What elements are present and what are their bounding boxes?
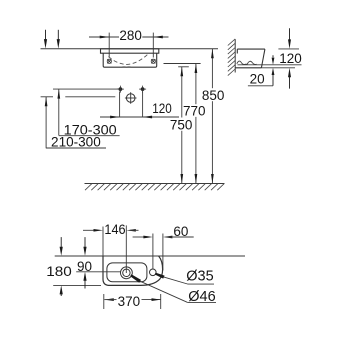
dimension 370 tick right	[160, 294, 162, 309]
dimension 180 label	[46, 264, 72, 279]
svg-text:60: 60	[173, 224, 188, 239]
basin front edge extension	[53, 284, 101, 286]
dimension 850 label	[202, 88, 225, 103]
svg-text:Ø35: Ø35	[186, 269, 213, 285]
svg-text:120: 120	[152, 101, 172, 116]
basin section outline	[235, 49, 265, 68]
dimension 120 line (mid)	[100, 116, 179, 119]
dimension 370 tick left	[103, 294, 105, 309]
dimension 370 line	[104, 298, 161, 301]
overflow hole circle	[150, 269, 157, 276]
dimension 120 label (mid)	[152, 101, 172, 116]
tap centre line (plan)	[125, 225, 127, 273]
dimension 20 arrows (section)	[272, 55, 275, 86]
dimension 120 label (section)	[279, 51, 302, 66]
floor line	[85, 183, 225, 185]
dimension 90 arrows	[83, 237, 86, 288]
svg-text:750: 750	[170, 117, 193, 132]
svg-text:Ø46: Ø46	[188, 289, 215, 305]
basin rim (side view)	[101, 49, 159, 53]
tap hole inner circle	[123, 269, 130, 276]
svg-text:370: 370	[118, 294, 141, 309]
dimension 60 line	[133, 236, 194, 239]
dimension 770 line	[195, 64, 198, 184]
basin body (side view)	[103, 53, 157, 67]
dimension 120 arrows (section)	[288, 28, 291, 88]
basin tap hole symbol	[125, 92, 137, 104]
svg-text:210-300: 210-300	[51, 134, 101, 149]
dimension 60 label	[173, 224, 188, 239]
hidden bowl contour (dashed)	[109, 54, 149, 67]
dimension 170-300 label	[59, 122, 120, 137]
tap hole mark left	[117, 86, 124, 93]
dimension 146 extension	[102, 227, 104, 257]
overflow centre line (plan)	[152, 234, 154, 270]
dimension 210-300 label	[46, 134, 106, 149]
dimension 120 droplines	[120, 91, 143, 117]
svg-text:280: 280	[119, 28, 142, 43]
tap hole mark right	[139, 86, 146, 93]
dimension 210-300 line	[45, 97, 48, 148]
dimension 750 line	[180, 67, 183, 184]
label Ø46	[188, 289, 215, 305]
basin right edge extension (plan)	[162, 234, 164, 271]
extension line for 770	[164, 63, 201, 65]
wall line (side elevation, top)	[41, 48, 219, 50]
fixing bolt left	[107, 59, 111, 63]
tap hole outer circle	[121, 267, 133, 279]
svg-text:850: 850	[202, 88, 225, 103]
wall line (section view)	[234, 39, 236, 72]
dimension 850 line	[211, 49, 214, 184]
reference line B	[41, 96, 116, 98]
dimension 146 line	[83, 229, 139, 232]
dimension 170-300 line	[57, 89, 60, 135]
dimension 146 label	[104, 222, 125, 237]
bottom level line	[261, 67, 295, 69]
interior level line	[238, 64, 302, 66]
wall hatching (section view)	[228, 39, 235, 76]
basin section inner contour	[237, 61, 257, 64]
dimension 750 label	[170, 117, 193, 132]
rim level extension	[278, 48, 299, 50]
mounting arrow right	[57, 30, 60, 49]
dimension 280 extension left	[108, 33, 110, 58]
floor hatching	[85, 184, 224, 191]
wall line (plan view)	[55, 255, 245, 257]
svg-text:770: 770	[183, 103, 206, 118]
svg-text:20: 20	[250, 72, 265, 87]
basin inner bowl (plan)	[107, 263, 147, 282]
dimension 280 extension right	[152, 33, 154, 58]
svg-text:120: 120	[279, 51, 302, 66]
dimension 180 arrows	[60, 237, 63, 296]
dimension 280 label	[119, 28, 142, 43]
leader arrow Ø46	[130, 274, 216, 302]
reference line A	[53, 88, 120, 90]
extension line for 750	[178, 66, 189, 68]
svg-text:180: 180	[46, 264, 72, 279]
fixing bolt right	[151, 59, 155, 63]
dimension 20 label	[248, 72, 273, 87]
mounting arrow left	[44, 30, 47, 49]
dimension 370 label	[118, 294, 141, 309]
svg-text:146: 146	[104, 222, 125, 237]
basin outline (plan)	[103, 256, 163, 285]
label Ø35	[186, 269, 213, 285]
dimension 770 label	[183, 103, 206, 118]
leader arrow Ø35	[155, 273, 214, 285]
dimension 280 line	[89, 36, 169, 39]
dimension 90 label	[76, 259, 120, 274]
